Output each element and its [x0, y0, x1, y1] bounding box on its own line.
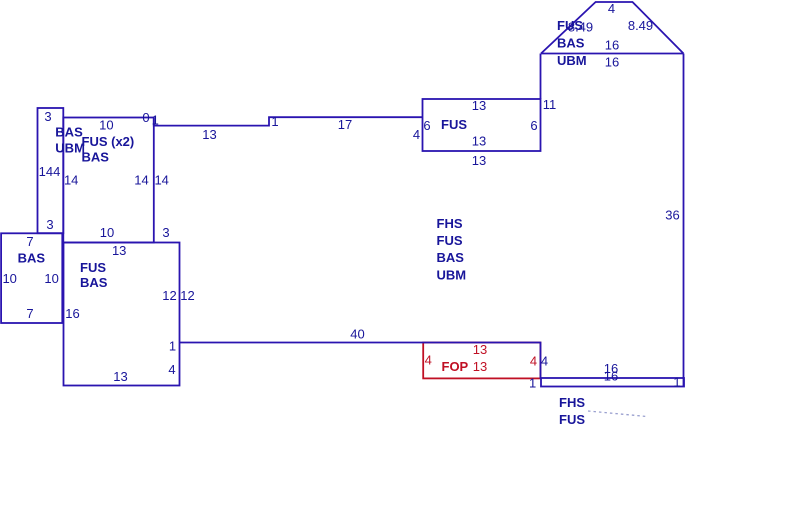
svg-text:14: 14 — [154, 173, 168, 188]
svg-text:8.49: 8.49 — [628, 18, 653, 33]
svg-text:FUS: FUS — [441, 117, 467, 132]
svg-text:4: 4 — [168, 362, 175, 377]
svg-text:BAS: BAS — [80, 275, 108, 290]
svg-text:144: 144 — [39, 164, 61, 179]
svg-text:10: 10 — [99, 118, 113, 133]
svg-text:13: 13 — [473, 342, 487, 357]
svg-text:FOP: FOP — [442, 359, 469, 374]
svg-text:13: 13 — [472, 98, 486, 113]
svg-text:BAS: BAS — [55, 125, 83, 140]
svg-text:12: 12 — [162, 288, 176, 303]
svg-text:10: 10 — [100, 225, 114, 240]
svg-text:BAS: BAS — [18, 251, 46, 266]
svg-text:FUS: FUS — [559, 412, 585, 427]
svg-text:13: 13 — [113, 369, 127, 384]
svg-text:FHS: FHS — [559, 395, 585, 410]
svg-text:UBM: UBM — [557, 53, 587, 68]
svg-text:13: 13 — [472, 153, 486, 168]
svg-text:4: 4 — [541, 354, 548, 369]
svg-text:4: 4 — [413, 127, 420, 142]
svg-text:40: 40 — [350, 327, 364, 342]
svg-text:10: 10 — [2, 271, 16, 286]
svg-text:BAS: BAS — [82, 150, 110, 165]
svg-text:6: 6 — [530, 118, 537, 133]
svg-text:UBM: UBM — [55, 140, 85, 155]
svg-text:10: 10 — [44, 271, 58, 286]
svg-text:3: 3 — [46, 217, 53, 232]
svg-text:13: 13 — [473, 359, 487, 374]
svg-text:FUS: FUS — [437, 233, 463, 248]
svg-text:FUS: FUS — [80, 260, 106, 275]
svg-text:12: 12 — [180, 288, 194, 303]
svg-text:13: 13 — [472, 134, 486, 149]
svg-text:3: 3 — [44, 109, 51, 124]
svg-text:6: 6 — [423, 118, 430, 133]
svg-text:14: 14 — [134, 173, 148, 188]
svg-text:17: 17 — [338, 117, 352, 132]
svg-text:1: 1 — [169, 339, 176, 354]
svg-text:7: 7 — [26, 306, 33, 321]
svg-text:4: 4 — [530, 354, 537, 369]
svg-text:FUS (x2): FUS (x2) — [82, 134, 135, 149]
svg-text:1: 1 — [673, 374, 680, 389]
svg-text:1: 1 — [152, 113, 159, 128]
svg-text:FHS: FHS — [437, 216, 463, 231]
svg-text:13: 13 — [202, 127, 216, 142]
svg-text:16: 16 — [65, 306, 79, 321]
svg-text:16: 16 — [604, 369, 618, 384]
svg-text:1: 1 — [529, 376, 536, 391]
svg-text:11: 11 — [543, 97, 557, 112]
svg-text:7: 7 — [26, 234, 33, 249]
svg-text:FUS: FUS — [557, 18, 583, 33]
svg-text:4: 4 — [425, 353, 432, 368]
svg-text:16: 16 — [605, 38, 619, 53]
svg-text:BAS: BAS — [437, 250, 465, 265]
svg-text:3: 3 — [162, 225, 169, 240]
svg-text:BAS: BAS — [557, 36, 585, 51]
svg-text:4: 4 — [608, 1, 615, 16]
svg-text:UBM: UBM — [437, 268, 467, 283]
svg-text:14: 14 — [64, 173, 78, 188]
svg-text:36: 36 — [665, 208, 679, 223]
svg-text:1: 1 — [271, 114, 278, 129]
svg-text:0: 0 — [142, 110, 149, 125]
svg-text:16: 16 — [605, 55, 619, 70]
svg-text:13: 13 — [112, 243, 126, 258]
